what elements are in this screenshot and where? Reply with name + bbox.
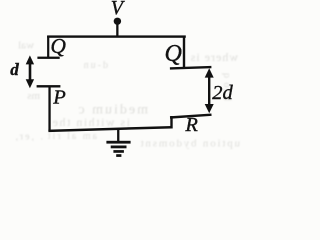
junction dot at node V: [114, 18, 121, 25]
svg-text:P: P: [52, 87, 66, 109]
plate label Q (right): [165, 41, 182, 67]
capacitor plate Q (right top plate): [170, 67, 212, 68]
capacitor plate Q (left top plate): [37, 57, 59, 59]
plate label P: [52, 87, 66, 109]
svg-text:am al rit: am al rit: [46, 131, 97, 142]
svg-text:ms: ms: [27, 90, 40, 102]
value label 2d: [212, 82, 233, 104]
svg-text:. ,er,: . ,er,: [14, 132, 43, 143]
plate label R: [184, 114, 198, 136]
svg-text:Q: Q: [50, 34, 66, 58]
value label d: [10, 60, 19, 79]
svg-text:where is: where is: [190, 50, 238, 64]
plate label Q (left): [50, 34, 66, 58]
svg-text:2d: 2d: [212, 82, 233, 104]
wire from V dot to top bus: [116, 24, 118, 37]
ground: [106, 129, 130, 157]
svg-text:uption bydomsnt: uption bydomsnt: [139, 138, 240, 150]
svg-text:d-un: d-un: [82, 60, 108, 71]
wire left branch down to plate Q: [47, 36, 49, 58]
dimension arrow d (double-headed): [26, 55, 34, 88]
svg-text:R: R: [184, 114, 198, 136]
svg-text:wal: wal: [18, 40, 34, 52]
wire from plate P down to bottom wire: [48, 87, 50, 132]
wire right branch down to plate Q: [183, 36, 185, 68]
svg-text:d: d: [10, 60, 19, 79]
wire from plate R down to bottom wire: [170, 116, 172, 129]
capacitor plate P (left bottom plate): [37, 85, 61, 87]
dimension arrow 2d (double-headed): [205, 68, 214, 113]
capacitor plate R (right bottom plate): [170, 115, 212, 118]
wire top bus: [47, 35, 186, 37]
node V label: [111, 0, 126, 19]
svg-text:is within the: is within the: [51, 115, 130, 129]
bleed-through (decorative): [14, 40, 240, 150]
bottom wire to ground junction: [48, 127, 171, 131]
svg-text:Q: Q: [165, 41, 182, 67]
